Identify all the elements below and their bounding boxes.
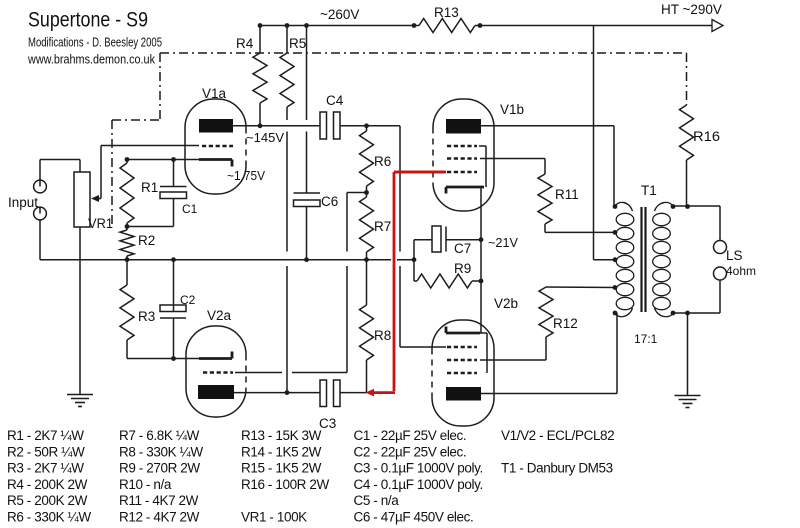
svg-text:R10 - n/a: R10 - n/a [119, 477, 172, 492]
svg-text:V2a: V2a [207, 308, 232, 323]
svg-text:R8: R8 [374, 328, 391, 343]
svg-text:V1/V2 - ECL/PCL82: V1/V2 - ECL/PCL82 [501, 428, 614, 443]
svg-text:R12 - 4K7 2W: R12 - 4K7 2W [119, 510, 200, 525]
svg-text:LS: LS [726, 248, 743, 263]
svg-text:~1.75V: ~1.75V [227, 168, 265, 183]
svg-text:4ohm: 4ohm [726, 264, 756, 278]
svg-text:R5 - 200K 2W: R5 - 200K 2W [7, 493, 88, 508]
svg-text:R15 - 1K5 2W: R15 - 1K5 2W [241, 461, 322, 476]
svg-text:R7: R7 [374, 219, 391, 234]
svg-text:R16: R16 [693, 129, 720, 144]
svg-text:~145V: ~145V [246, 130, 284, 145]
svg-text:Modifications - D. Beesley 200: Modifications - D. Beesley 2005 [28, 36, 162, 50]
svg-text:R7 - 6.8K ¼W: R7 - 6.8K ¼W [119, 428, 200, 443]
svg-text:C3: C3 [319, 416, 336, 431]
svg-text:R9 - 270R 2W: R9 - 270R 2W [119, 461, 200, 476]
svg-text:R4: R4 [236, 36, 254, 51]
svg-text:R6 - 330K ¼W: R6 - 330K ¼W [7, 510, 91, 525]
svg-text:R13: R13 [434, 5, 459, 20]
svg-text:C6 - 47µF 450V elec.: C6 - 47µF 450V elec. [354, 510, 474, 525]
svg-text:C3 - 0.1µF 1000V poly.: C3 - 0.1µF 1000V poly. [354, 461, 483, 476]
svg-text:R12: R12 [553, 316, 578, 331]
svg-text:~260V: ~260V [320, 7, 359, 22]
svg-text:VR1: VR1 [88, 216, 113, 231]
svg-text:R1: R1 [141, 180, 158, 195]
svg-text:C2: C2 [180, 293, 196, 307]
svg-text:R4 - 200K 2W: R4 - 200K 2W [7, 477, 88, 492]
svg-text:Input: Input [8, 195, 38, 210]
svg-text:www.brahms.demon.co.uk: www.brahms.demon.co.uk [27, 53, 156, 67]
svg-text:V1b: V1b [500, 102, 524, 117]
svg-text:HT ~290V: HT ~290V [661, 2, 722, 17]
svg-text:R11 - 4K7 2W: R11 - 4K7 2W [119, 493, 199, 508]
svg-text:Supertone - S9: Supertone - S9 [28, 8, 148, 32]
svg-text:17:1: 17:1 [634, 332, 658, 346]
svg-text:R3: R3 [138, 309, 155, 324]
svg-text:C6: C6 [321, 194, 338, 209]
svg-text:R3 - 2K7 ¼W: R3 - 2K7 ¼W [7, 461, 84, 476]
svg-text:~21V: ~21V [488, 235, 518, 250]
svg-text:C4 - 0.1µF 1000V poly.: C4 - 0.1µF 1000V poly. [354, 477, 483, 492]
svg-text:R9: R9 [454, 261, 471, 276]
svg-text:R11: R11 [555, 187, 579, 202]
svg-text:R8 - 330K ¼W: R8 - 330K ¼W [119, 444, 203, 459]
svg-text:C1: C1 [182, 202, 198, 216]
svg-text:V2b: V2b [494, 296, 518, 311]
svg-text:C5 - n/a: C5 - n/a [354, 493, 400, 508]
svg-text:R5: R5 [289, 36, 306, 51]
svg-text:C7: C7 [454, 241, 471, 256]
svg-text:V1a: V1a [202, 86, 227, 101]
svg-text:R2: R2 [138, 233, 155, 248]
svg-text:R13 - 15K 3W: R13 - 15K 3W [241, 428, 322, 443]
svg-text:R2 - 50R ¼W: R2 - 50R ¼W [7, 444, 85, 459]
svg-text:C2 - 22µF 25V elec.: C2 - 22µF 25V elec. [354, 444, 467, 459]
svg-text:T1 - Danbury DM53: T1 - Danbury DM53 [501, 461, 613, 476]
svg-text:R1 - 2K7 ¼W: R1 - 2K7 ¼W [7, 428, 84, 443]
svg-text:R14 - 1K5 2W: R14 - 1K5 2W [241, 444, 322, 459]
svg-text:VR1 - 100K: VR1 - 100K [241, 510, 307, 525]
svg-text:C4: C4 [326, 93, 344, 108]
svg-text:R6: R6 [374, 154, 391, 169]
svg-text:C1 - 22µF 25V elec.: C1 - 22µF 25V elec. [354, 428, 467, 443]
svg-text:T1: T1 [641, 183, 657, 198]
svg-text:R16 - 100R 2W: R16 - 100R 2W [241, 477, 329, 492]
